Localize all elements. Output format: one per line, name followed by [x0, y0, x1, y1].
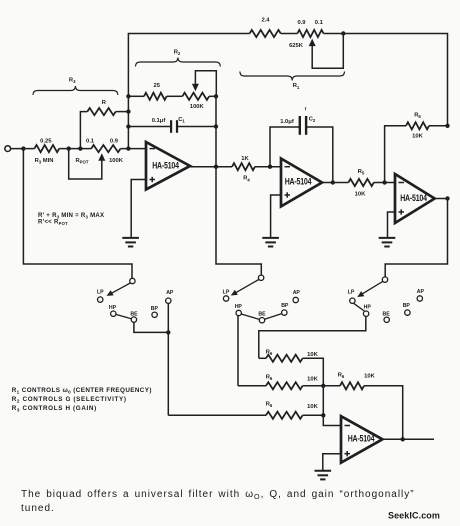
svg-text:LP: LP — [223, 289, 230, 295]
junction dot R2 right — [214, 94, 218, 98]
contact S3 AP — [417, 296, 422, 301]
wire U1 feedback column — [215, 96, 217, 166]
resistor R4 1K — [232, 163, 255, 170]
svg-text:HP: HP — [364, 304, 372, 310]
bracket R1 — [240, 72, 345, 81]
label 1K — [241, 156, 249, 162]
resistor R1 fixed part 2.4 — [250, 30, 281, 37]
wire S1 AP down to R6 row3 — [167, 303, 169, 415]
label R — [102, 100, 107, 106]
svg-text:C2: C2 — [309, 117, 316, 124]
svg-text:AP: AP — [166, 290, 174, 296]
svg-text:LP: LP — [348, 289, 355, 295]
junction dot R left — [78, 146, 82, 150]
svg-text:0.9: 0.9 — [110, 138, 119, 144]
svg-text:R1 CONTROLS ω0 (CENTER FREQUEN: R1 CONTROLS ω0 (CENTER FREQUENCY) — [12, 387, 152, 395]
label 1.0uf — [280, 119, 294, 125]
svg-text:10K: 10K — [412, 133, 423, 139]
svg-text:HA-5104: HA-5104 — [348, 434, 375, 444]
junction dot node column — [126, 146, 130, 150]
wire top feedback net from node A to op-amp U3 output — [128, 34, 447, 149]
wire U2 output — [322, 182, 348, 184]
wire S1 HP to BE — [116, 314, 131, 318]
op-amp U1 — [146, 142, 190, 190]
resistor R — [80, 108, 128, 149]
svg-text:R1: R1 — [293, 83, 300, 90]
svg-text:HA-5104: HA-5104 — [152, 161, 179, 171]
svg-text:100K: 100K — [109, 158, 124, 164]
svg-text:R6: R6 — [338, 372, 345, 379]
svg-text:BE: BE — [382, 312, 390, 318]
resistor R5 series 10K — [348, 179, 373, 186]
svg-text:2.4: 2.4 — [261, 18, 270, 24]
label S1 HP — [109, 305, 117, 311]
label RPOT — [75, 158, 88, 165]
legend R3 controls — [12, 405, 97, 413]
svg-text:BE: BE — [130, 311, 138, 317]
wire R6 row1 to column — [303, 358, 324, 386]
wire S3 HP down to R6 row1 — [259, 316, 366, 358]
label 10K row1 — [307, 352, 318, 358]
svg-text:100K: 100K — [190, 104, 205, 110]
label 10K series — [355, 191, 366, 197]
wire S2 HP down to R6 row2 — [237, 316, 239, 386]
switch S1 arm to LP — [107, 283, 131, 296]
ground G3 — [379, 238, 396, 247]
switch S1 common contact — [130, 278, 135, 283]
op-amp U3 — [395, 174, 435, 223]
resistor R6 row3 10K — [266, 412, 303, 419]
label R1 — [293, 83, 300, 90]
caption line 2 — [21, 503, 55, 514]
svg-text:10K: 10K — [355, 191, 366, 197]
mark above C2 — [305, 107, 307, 112]
contact S1 HP — [111, 311, 116, 316]
label R5 series — [358, 169, 365, 176]
label S3 HP — [364, 304, 372, 310]
label S1 BE — [130, 311, 138, 317]
note R plus R3MIN — [38, 212, 105, 220]
svg-text:R5: R5 — [414, 112, 421, 119]
contact S2 BE — [259, 318, 264, 323]
wire to pot — [59, 148, 91, 150]
label 0.9 — [110, 138, 119, 144]
svg-text:HP: HP — [235, 304, 243, 310]
svg-text:BE: BE — [258, 312, 266, 318]
label S2 LP — [223, 289, 230, 295]
label 10K feedback R6 — [364, 374, 375, 380]
legend R1 controls — [12, 387, 152, 395]
resistor R6 row1 10K — [266, 355, 303, 362]
wire R6 row2 — [238, 385, 266, 387]
svg-text:C1: C1 — [178, 117, 185, 124]
svg-text:BP: BP — [281, 303, 289, 309]
label 0.1uf — [152, 118, 166, 124]
label 0.1 — [86, 138, 95, 144]
wire R6 row3 — [168, 414, 266, 416]
wire U1 output — [190, 166, 232, 168]
ground G1 — [122, 238, 139, 247]
svg-text:BP: BP — [403, 303, 411, 309]
svg-text:0.1: 0.1 — [86, 138, 95, 144]
wiper of R2 pot — [192, 71, 216, 97]
junction dot C1 right — [214, 124, 218, 128]
label S2 BP — [281, 303, 289, 309]
wire input — [11, 148, 35, 150]
junction dot S1 — [166, 330, 170, 334]
contact S3 BP — [405, 310, 410, 315]
potentiometer R1 625K — [297, 30, 323, 37]
junction dot U3 input — [382, 180, 386, 184]
wire U1 output to switch S2 common — [216, 167, 261, 275]
label 625K — [289, 43, 304, 49]
wiper of R1 pot to node — [309, 34, 344, 69]
svg-text:10K: 10K — [307, 404, 318, 410]
contact S2 BP — [282, 310, 287, 315]
label S1 LP — [97, 289, 104, 295]
junction dot U4 output — [401, 437, 405, 441]
svg-text:HA-5104: HA-5104 — [285, 177, 312, 187]
label 0.1 — [315, 20, 324, 26]
label 0.25 — [40, 138, 52, 144]
svg-text:0.25: 0.25 — [40, 138, 52, 144]
label S2 BE — [258, 312, 266, 318]
svg-text:10K: 10K — [364, 374, 375, 380]
label S1 BP — [151, 306, 159, 312]
svg-text:R2 CONTROLS G (SELECTIVITY): R2 CONTROLS G (SELECTIVITY) — [12, 396, 127, 404]
label R6 row2 — [266, 374, 273, 381]
wire S3 LP to HP — [354, 303, 365, 311]
svg-text:HP: HP — [109, 305, 117, 311]
svg-text:R3: R3 — [69, 77, 76, 84]
contact S1 BE — [131, 317, 136, 322]
label S1 AP — [166, 290, 174, 296]
contact S3 HP — [363, 311, 368, 316]
svg-text:RPOT: RPOT — [75, 158, 88, 165]
op-amp U4 — [341, 416, 382, 463]
ground G2 — [262, 238, 279, 247]
contact S2 LP — [223, 296, 228, 301]
label S3 AP — [417, 289, 425, 295]
contact S1 AP — [166, 298, 171, 303]
svg-text:0.1μf: 0.1μf — [152, 118, 166, 124]
op-amp U2 — [281, 159, 322, 207]
label R3 — [69, 77, 76, 84]
label 0.9 — [297, 20, 306, 26]
resistor R3 MIN 0.25 — [34, 145, 59, 152]
label R4 — [243, 176, 250, 183]
wire S2 HP to BE — [241, 314, 259, 319]
svg-text:R6: R6 — [266, 349, 273, 356]
label S3 BE — [382, 312, 390, 318]
junction dot summing row2 — [321, 384, 325, 388]
svg-text:BP: BP — [151, 306, 159, 312]
potentiometer R2 100K — [182, 93, 209, 100]
svg-text:R3 MIN: R3 MIN — [35, 158, 54, 165]
junction dot input — [21, 146, 25, 150]
label S3 LP — [348, 289, 355, 295]
wire summing column to U4 — [323, 386, 341, 426]
label 25 — [153, 83, 160, 89]
label 10K feedback — [412, 133, 423, 139]
switch S3 common contact — [382, 277, 387, 282]
svg-text:R3 CONTROLS H (GAIN): R3 CONTROLS H (GAIN) — [12, 405, 97, 413]
label S2 AP — [293, 290, 301, 296]
junction dot U2 output — [331, 180, 335, 184]
svg-text:R6: R6 — [266, 374, 273, 381]
bracket R3 — [33, 86, 118, 95]
label C1 — [178, 117, 185, 124]
svg-text:R4: R4 — [243, 176, 250, 183]
legend R2 controls — [12, 396, 127, 404]
label R5 feedback — [414, 112, 421, 119]
label 2.4 — [261, 18, 270, 24]
svg-text:R5: R5 — [358, 169, 365, 176]
note R much less RPOT — [38, 219, 68, 227]
junction dot C1 left — [126, 124, 130, 128]
wire input to switch S1 common — [23, 149, 132, 279]
resistor R2 fixed part 25 — [144, 93, 167, 100]
switch S2 common contact — [258, 275, 263, 280]
wire U3 output to switch S3 common — [385, 199, 447, 277]
junction dot summing row3 — [321, 413, 325, 417]
wire S1 BE down — [134, 322, 169, 332]
contact S1 LP — [98, 297, 103, 302]
label R6 feedback — [338, 372, 345, 379]
caption line 1 — [21, 489, 415, 501]
svg-text:625K: 625K — [289, 43, 304, 49]
label 10K row3 — [307, 404, 318, 410]
junction dot R right — [126, 109, 130, 113]
junction dot U3 output — [445, 196, 449, 200]
label 10K row2 — [307, 376, 318, 382]
svg-text:25: 25 — [153, 83, 160, 89]
svg-text:tuned.: tuned. — [21, 503, 55, 514]
wire R5 to U3 — [374, 182, 395, 184]
resistor R6 row2 10K — [266, 382, 303, 389]
resistor R6 feedback 10K — [323, 382, 402, 439]
label R6 row1 — [266, 349, 273, 356]
capacitor C2 loop 1.0uf — [270, 116, 333, 183]
wire R4 to U2 — [255, 166, 281, 168]
svg-text:1.0μf: 1.0μf — [280, 119, 294, 125]
wire R6 row3 to column — [303, 414, 324, 416]
input terminal — [5, 146, 11, 152]
capacitor C1 0.1uf — [128, 120, 216, 133]
resistor R5 feedback 10K — [385, 122, 448, 182]
svg-text:0.1: 0.1 — [315, 20, 324, 26]
label S2 HP — [235, 304, 243, 310]
switch S2 arm to LP — [231, 280, 259, 296]
svg-text:R6: R6 — [266, 401, 273, 408]
contact S2 HP — [236, 310, 241, 315]
label R2 — [174, 49, 181, 56]
svg-text:The biquad offers a universal: The biquad offers a universal filter wit… — [21, 489, 415, 501]
svg-text:HA-5104: HA-5104 — [400, 193, 427, 203]
wire U1 plus to ground — [131, 180, 146, 238]
junction dot R1 wiper on top wire — [341, 31, 345, 35]
junction dot R2 left — [126, 94, 130, 98]
bracket R2 — [136, 58, 221, 67]
wire R6 row1 — [259, 357, 266, 359]
wire U3 output — [435, 198, 448, 200]
svg-text:AP: AP — [417, 289, 425, 295]
ground G4 — [315, 471, 332, 480]
svg-text:AP: AP — [293, 290, 301, 296]
svg-text:R2: R2 — [174, 49, 181, 56]
contact S1 BP — [152, 312, 157, 317]
wire R2 row — [128, 95, 216, 97]
svg-text:10K: 10K — [307, 376, 318, 382]
label C2 — [309, 117, 316, 124]
svg-text:SeekIC.com: SeekIC.com — [388, 511, 440, 521]
label R3 MIN — [35, 158, 54, 165]
label S3 BP — [403, 303, 411, 309]
watermark SeekIC.com — [388, 511, 440, 521]
label R6 row3 — [266, 401, 273, 408]
svg-text:0.9: 0.9 — [297, 20, 306, 26]
junction dot U1 output — [214, 165, 218, 169]
wiper of RPOT — [69, 149, 106, 179]
junction dot pot tie — [67, 146, 71, 150]
switch S3 arm to LP — [357, 281, 383, 297]
svg-text:1K: 1K — [241, 156, 249, 162]
junction dot R5 feedback right — [445, 124, 449, 128]
wire pot to op-amp U1 — [121, 148, 147, 150]
svg-text:LP: LP — [97, 289, 104, 295]
contact S2 AP — [293, 297, 298, 302]
contact S3 LP — [350, 298, 355, 303]
contact S3 BE — [384, 317, 389, 322]
wire U4 plus to ground — [323, 454, 341, 471]
wire U2 plus to ground — [271, 195, 281, 238]
svg-text:10K: 10K — [307, 352, 318, 358]
label 100K pot — [109, 158, 124, 164]
wire S2 BE to BP — [265, 314, 282, 320]
label 100K — [190, 104, 205, 110]
wire R6 row2 to column — [303, 385, 324, 387]
junction dot U2 input — [268, 165, 272, 169]
wire U4 output — [382, 438, 434, 440]
wire U3 plus to ground — [388, 212, 396, 238]
potentiometer RPOT 100K — [91, 145, 120, 152]
